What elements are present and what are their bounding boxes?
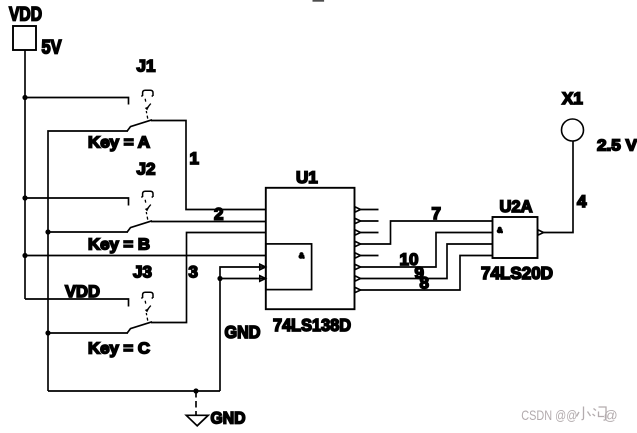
- wire VDD to J2 input: [25, 198, 129, 206]
- wire switch-common rail: [48, 131, 128, 391]
- wire bottom ground rail: [48, 390, 220, 392]
- probe X1: [562, 119, 584, 141]
- svg-text:X1: X1: [562, 89, 583, 108]
- svg-text:Key = A: Key = A: [88, 135, 150, 152]
- watermark: [521, 407, 617, 424]
- junction rail-J2: [45, 229, 50, 234]
- IC U2A 74LS20D: [493, 217, 544, 258]
- svg-text:4: 4: [577, 192, 587, 211]
- svg-text:&: &: [497, 225, 502, 234]
- svg-text:J1: J1: [137, 57, 156, 76]
- svg-text:74LS20D: 74LS20D: [481, 263, 553, 283]
- wire net 3: [151, 233, 266, 323]
- wire VDD to J1 input: [25, 98, 129, 105]
- pin stub Y2: [361, 232, 379, 234]
- junction VDD-J2: [22, 195, 27, 200]
- wire net 10: [361, 233, 493, 268]
- pin stub Y0: [361, 209, 379, 211]
- svg-text:8: 8: [420, 274, 429, 293]
- svg-text:3: 3: [189, 263, 198, 282]
- svg-text:7: 7: [432, 204, 441, 223]
- junction rail-J3: [45, 330, 50, 335]
- svg-text:J3: J3: [133, 263, 152, 282]
- svg-text:J2: J2: [137, 160, 156, 179]
- wire net 2: [151, 221, 266, 223]
- wire net 9: [361, 244, 493, 279]
- pin stub Y1: [361, 220, 379, 222]
- svg-text:5V: 5V: [42, 38, 62, 59]
- svg-text:2: 2: [214, 205, 223, 224]
- svg-text:1: 1: [190, 149, 199, 168]
- junction VDD-G1: [22, 253, 27, 258]
- svg-text:CSDN @@: CSDN @@: [521, 407, 577, 423]
- svg-text:U1: U1: [296, 168, 318, 187]
- junction GND tie: [217, 276, 222, 281]
- IC U1 74LS138D: [260, 188, 361, 309]
- ground symbol: [186, 391, 208, 426]
- switch J1: [127, 90, 153, 131]
- svg-text:@: @: [604, 407, 618, 423]
- wire J2 pivot: [48, 231, 128, 233]
- wire J3 pivot: [48, 332, 128, 334]
- svg-text:74LS138D: 74LS138D: [273, 315, 351, 335]
- power symbol VDD top: [13, 26, 36, 50]
- switch J3: [127, 292, 153, 333]
- junction VDD-J1: [22, 95, 27, 100]
- svg-text:&: &: [299, 251, 304, 260]
- pin stub Y4: [361, 255, 379, 257]
- svg-text:GND: GND: [225, 322, 261, 342]
- svg-text:U2A: U2A: [500, 197, 533, 216]
- wire net 7: [361, 221, 493, 244]
- wire net 1: [151, 121, 266, 210]
- svg-text:Key = B: Key = B: [88, 237, 150, 254]
- svg-text:2.5 V: 2.5 V: [597, 138, 637, 155]
- wire VDD to J3 input: [25, 299, 129, 307]
- svg-text:Key = C: Key = C: [88, 341, 150, 358]
- junction ground rail: [193, 388, 198, 393]
- svg-text:GND: GND: [211, 409, 246, 428]
- svg-text:VDD: VDD: [9, 5, 42, 26]
- wire GND tie to U1 enables: [220, 267, 266, 391]
- wire net 4: [544, 142, 574, 233]
- wire net 8: [361, 256, 493, 291]
- svg-text:VDD: VDD: [65, 282, 100, 301]
- switch J2: [127, 191, 153, 232]
- wire VDD to U1 pin G1: [25, 255, 266, 257]
- wire VDD rail vertical: [24, 50, 26, 299]
